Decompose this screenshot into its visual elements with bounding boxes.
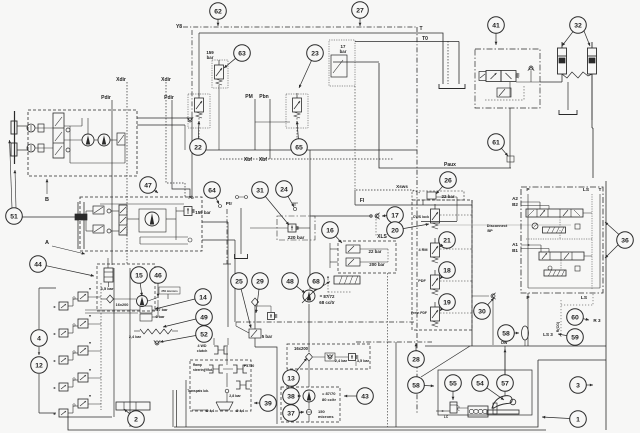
valve 17bar-6bar bbox=[140, 306, 152, 313]
svg-text:Pbn: Pbn bbox=[259, 94, 268, 100]
wire Xbf rail bbox=[199, 149, 417, 151]
diamond junction bbox=[252, 298, 259, 306]
wheel motor 1 bbox=[27, 124, 35, 132]
wire hitch feed bbox=[538, 359, 606, 361]
svg-text:37: 37 bbox=[287, 410, 295, 417]
svg-text:Pb: Pb bbox=[188, 195, 194, 200]
svg-text:LS 3: LS 3 bbox=[543, 332, 553, 337]
svg-text:4: 4 bbox=[37, 335, 41, 342]
balloon 13 bbox=[283, 370, 300, 387]
svg-text:32: 32 bbox=[574, 22, 582, 29]
balloon 38 bbox=[283, 388, 300, 405]
wheel brake lower bbox=[11, 143, 17, 156]
cylinder left bbox=[558, 48, 567, 74]
pump 38 bbox=[303, 390, 315, 402]
spool stack bbox=[53, 113, 64, 158]
gearbox lub box bbox=[287, 344, 370, 369]
balloon 22 bbox=[190, 139, 207, 156]
svg-text:Xbf: Xbf bbox=[259, 157, 267, 163]
transmission assembly box bbox=[28, 110, 137, 176]
wire drain 396 bbox=[395, 342, 397, 427]
clutch r1 bbox=[209, 365, 213, 373]
valve 5bar bbox=[249, 329, 261, 338]
wire Pdir line B bbox=[172, 100, 190, 197]
wire bottom border bbox=[68, 417, 546, 430]
tank mid bbox=[235, 254, 248, 259]
balloon 3 bbox=[570, 377, 587, 394]
balloon 39 bbox=[260, 395, 277, 412]
svg-text:159 bar: 159 bar bbox=[195, 210, 211, 215]
svg-text:Xdir: Xdir bbox=[161, 77, 171, 83]
svg-text:R 3: R 3 bbox=[593, 318, 601, 323]
solenoid 4RM bbox=[431, 243, 440, 257]
svg-text:B1: B1 bbox=[512, 248, 518, 253]
gerotor 1 bbox=[93, 206, 104, 214]
axle shaft bbox=[14, 111, 16, 164]
balloon 60 bbox=[567, 309, 584, 326]
svg-text:63: 63 bbox=[238, 50, 246, 57]
svg-text:22: 22 bbox=[194, 144, 202, 151]
wire CWS line bbox=[421, 221, 457, 223]
balloon 16 bbox=[322, 222, 339, 239]
balloon 24 bbox=[276, 181, 293, 198]
svg-text:28: 28 bbox=[412, 356, 420, 363]
wire LG in bbox=[436, 410, 450, 412]
wire R3 rail bbox=[605, 181, 607, 430]
svg-text:3,5 bar: 3,5 bar bbox=[357, 359, 370, 363]
shuttle 1 bbox=[66, 128, 70, 132]
clutch r2 bbox=[233, 365, 237, 373]
wire lever feed bbox=[504, 346, 506, 396]
wire mid tank drop bbox=[240, 208, 242, 254]
balloon 46 bbox=[150, 267, 167, 284]
svg-text:31: 31 bbox=[256, 187, 264, 194]
svg-text:Transpats lub.: Transpats lub. bbox=[187, 389, 209, 393]
wire xsws link bbox=[413, 190, 420, 193]
svg-text:T: T bbox=[599, 187, 602, 193]
svg-text:steering clut.: steering clut. bbox=[193, 368, 213, 372]
svg-text:18: 18 bbox=[443, 267, 451, 274]
svg-text:Xbf: Xbf bbox=[244, 157, 252, 163]
svg-text:61: 61 bbox=[492, 139, 500, 146]
differential bbox=[216, 402, 233, 410]
balloon 28 bbox=[408, 351, 425, 368]
directional valve section bbox=[78, 399, 88, 408]
svg-text:250 microns: 250 microns bbox=[161, 289, 178, 293]
tank 41 bbox=[559, 110, 577, 115]
aux valve box 41 bbox=[475, 49, 540, 108]
pilot valve 41 bbox=[497, 88, 511, 97]
valve 22bar-26 bbox=[412, 191, 464, 200]
wire pump link bbox=[457, 407, 468, 409]
wire tank link bbox=[198, 33, 200, 96]
svg-text:23: 23 bbox=[311, 50, 319, 57]
svg-text:55: 55 bbox=[449, 380, 457, 387]
check 41 bbox=[529, 66, 533, 70]
valve 17bar bbox=[331, 55, 347, 77]
wheel motor 2 bbox=[27, 144, 35, 152]
balloon 23 bbox=[307, 45, 324, 62]
test point 24 bbox=[292, 202, 298, 204]
solenoid PDF bbox=[431, 275, 440, 289]
wire box1 internals bbox=[35, 127, 53, 129]
relief 159bar bbox=[184, 207, 192, 216]
reducer 22bar bbox=[346, 245, 360, 253]
filter diamond bbox=[107, 295, 114, 303]
compensator 2 bbox=[532, 223, 538, 229]
balloon 57 bbox=[497, 375, 514, 392]
solenoid CWS bbox=[431, 209, 440, 223]
wire left return stub bbox=[68, 416, 112, 418]
svg-text:BP: BP bbox=[487, 229, 493, 233]
balloon 51 bbox=[6, 208, 23, 225]
valve 22 drain bbox=[188, 118, 192, 122]
balloon 1 bbox=[570, 411, 587, 428]
wire supply right bbox=[202, 221, 228, 223]
svg-text:65: 65 bbox=[295, 144, 303, 151]
svg-text:43: 43 bbox=[361, 393, 369, 400]
wheel brake upper bbox=[11, 121, 17, 134]
wire supply right2 bbox=[202, 239, 235, 241]
relief 220bar bbox=[288, 224, 296, 232]
wire clutch pipes bbox=[226, 347, 228, 365]
balloon 64 bbox=[204, 182, 221, 199]
wire sol links bbox=[440, 214, 472, 216]
pilot box 17bar bbox=[329, 40, 355, 86]
svg-text:FI: FI bbox=[360, 198, 365, 204]
balloon 32 bbox=[570, 17, 587, 34]
hose wave bbox=[562, 72, 592, 78]
cylinder right bbox=[588, 48, 597, 74]
assembly frame bbox=[438, 370, 532, 415]
svg-text:PM: PM bbox=[245, 94, 253, 100]
wire cylinder drain bbox=[591, 74, 593, 128]
compensator 1 bbox=[544, 270, 566, 276]
svg-text:B2: B2 bbox=[512, 202, 518, 207]
check 17 bbox=[375, 214, 379, 218]
balloon 36 bbox=[617, 232, 634, 249]
wire pump feed line bbox=[309, 150, 311, 289]
svg-text:2,4 bar: 2,4 bar bbox=[129, 335, 142, 339]
svg-text:58: 58 bbox=[502, 330, 510, 337]
balloon 29 bbox=[252, 273, 269, 290]
svg-text:R(CG): R(CG) bbox=[556, 321, 560, 332]
solenoid FreinPDF bbox=[431, 307, 440, 321]
clutch box bbox=[190, 360, 251, 411]
svg-text:22 bar: 22 bar bbox=[442, 194, 455, 199]
bank end plate bbox=[116, 402, 150, 410]
balloon 4 bbox=[31, 330, 48, 347]
wire pilot drop 387 bbox=[387, 273, 389, 427]
svg-text:60: 60 bbox=[571, 314, 579, 321]
balloon 49 bbox=[196, 309, 213, 326]
balloon 25 bbox=[231, 273, 248, 290]
wire 41 out bbox=[540, 81, 562, 83]
wire T0 inner line bbox=[447, 41, 449, 84]
svg-text:Frein PDF: Frein PDF bbox=[411, 311, 427, 315]
svg-text:48: 48 bbox=[286, 278, 294, 285]
svg-text:17: 17 bbox=[391, 212, 399, 219]
svg-text:12: 12 bbox=[35, 362, 43, 369]
charge valve bbox=[117, 133, 125, 145]
svg-text:16x200: 16x200 bbox=[116, 303, 129, 307]
svg-text:Xsws: Xsws bbox=[396, 184, 408, 189]
balloon 63 bbox=[234, 45, 251, 62]
svg-text:4 RM: 4 RM bbox=[418, 248, 427, 252]
accumulator 58 bbox=[522, 326, 529, 340]
svg-text:68 cc/tr: 68 cc/tr bbox=[319, 300, 335, 305]
svg-text:Pdir: Pdir bbox=[164, 95, 174, 101]
svg-text:41: 41 bbox=[492, 22, 500, 29]
svg-text:24: 24 bbox=[280, 186, 288, 193]
svg-text:2: 2 bbox=[134, 416, 138, 423]
spool stack 2 bbox=[119, 205, 127, 235]
svg-text:Ptr: Ptr bbox=[226, 201, 233, 206]
svg-text:5 bar: 5 bar bbox=[262, 334, 273, 339]
balloon 54 bbox=[472, 375, 489, 392]
svg-text:47: 47 bbox=[144, 182, 152, 189]
spool section 2 bbox=[526, 209, 583, 217]
converter coil bbox=[140, 329, 172, 334]
pilot box 22 bbox=[188, 94, 210, 128]
wire bank rails bbox=[100, 283, 102, 410]
balloon 44 bbox=[30, 256, 47, 273]
svg-text:3,5 bar: 3,5 bar bbox=[101, 286, 114, 291]
balloon 58 bbox=[498, 325, 515, 342]
wire block internals bbox=[527, 194, 529, 288]
svg-text:16: 16 bbox=[326, 227, 334, 234]
svg-text:57: 57 bbox=[501, 380, 509, 387]
svg-text:LS: LS bbox=[581, 295, 588, 301]
svg-text:30: 30 bbox=[478, 308, 486, 315]
suction diagonal bbox=[313, 282, 330, 293]
balloon 20 bbox=[387, 222, 404, 239]
microns box bbox=[159, 287, 180, 294]
gerotor 2 bbox=[93, 225, 104, 233]
balloon 55 bbox=[445, 375, 462, 392]
svg-text:26: 26 bbox=[444, 177, 452, 184]
wire 220 line bbox=[250, 227, 288, 229]
svg-text:13: 13 bbox=[287, 375, 295, 382]
balloon 18 bbox=[439, 262, 456, 279]
valve 63 cartridge bbox=[215, 65, 224, 79]
balloon 27 bbox=[352, 2, 369, 19]
balloon 26 bbox=[440, 172, 457, 189]
diamond 13 bbox=[306, 353, 313, 361]
svg-text:59: 59 bbox=[571, 334, 579, 341]
clutch 4wd bbox=[214, 346, 218, 354]
strainer 37 bbox=[306, 409, 311, 414]
wire A2B2 bbox=[521, 201, 540, 203]
directional valve section bbox=[78, 373, 88, 382]
test point 22 bbox=[236, 196, 239, 199]
svg-text:Xdir: Xdir bbox=[116, 77, 126, 83]
shuttle 2 bbox=[66, 148, 70, 152]
svg-text:1: 1 bbox=[576, 416, 580, 423]
svg-text:27: 27 bbox=[356, 7, 364, 14]
svg-text:Ø 4,4: Ø 4,4 bbox=[206, 409, 214, 413]
pilot box 65 bbox=[286, 94, 308, 128]
svg-text:21: 21 bbox=[443, 237, 451, 244]
balloon 12 bbox=[31, 357, 48, 374]
svg-text:LC: LC bbox=[444, 415, 449, 419]
wire 41 internals bbox=[485, 99, 524, 101]
wire T return drop bbox=[416, 27, 418, 414]
wire PM line bbox=[254, 99, 256, 150]
svg-text:A1: A1 bbox=[512, 242, 518, 247]
balloon 58 bbox=[408, 377, 425, 394]
svg-text:51: 51 bbox=[10, 213, 18, 220]
pump drive shaft bbox=[77, 202, 79, 249]
svg-text:T0: T0 bbox=[422, 36, 428, 42]
svg-text:Ramp: Ramp bbox=[193, 363, 202, 367]
svg-text:200 bar: 200 bar bbox=[369, 262, 385, 267]
pilot LS pump bbox=[327, 276, 329, 293]
wire box2 internals bbox=[86, 210, 93, 212]
solenoid block box bbox=[412, 200, 472, 330]
check 30 bbox=[491, 294, 495, 298]
svg-text:68: 68 bbox=[312, 278, 320, 285]
svg-text:15: 15 bbox=[135, 272, 143, 279]
pilot RCG bbox=[560, 300, 562, 337]
svg-text:36: 36 bbox=[621, 237, 629, 244]
svg-text:XLS: XLS bbox=[377, 234, 387, 240]
balloon 61 bbox=[488, 134, 505, 151]
svg-text:4 WD: 4 WD bbox=[198, 344, 207, 348]
wire A1B1 bbox=[521, 244, 541, 246]
valve 22 cartridge bbox=[195, 98, 204, 112]
balloon 14 bbox=[195, 289, 212, 306]
svg-text:PDF: PDF bbox=[418, 279, 426, 283]
svg-text:Disconnect: Disconnect bbox=[487, 224, 508, 228]
balloon 37 bbox=[283, 405, 300, 422]
LS gallery bbox=[526, 238, 592, 240]
svg-text:25: 25 bbox=[235, 278, 243, 285]
wire 37 pipes bbox=[308, 402, 310, 409]
svg-text:A2: A2 bbox=[512, 196, 518, 201]
svg-text:bar: bar bbox=[340, 49, 347, 54]
wire box1 out bbox=[137, 117, 192, 119]
wire lock rail bbox=[356, 341, 432, 343]
filter box 44 bbox=[97, 264, 155, 311]
svg-text:29: 29 bbox=[256, 278, 264, 285]
svg-text:3: 3 bbox=[576, 382, 580, 389]
svg-text:58: 58 bbox=[412, 382, 420, 389]
tank T0 bbox=[439, 84, 465, 89]
balloon 2 bbox=[128, 411, 145, 428]
svg-text:LS: LS bbox=[583, 187, 590, 193]
balloon 17 bbox=[387, 207, 404, 224]
reducer 200bar bbox=[346, 258, 360, 266]
balloon 43 bbox=[357, 388, 374, 405]
wire Pbn line bbox=[269, 99, 271, 159]
wire Ptr drop bbox=[226, 209, 228, 264]
wire 5bar pipes bbox=[254, 306, 256, 329]
balloon 65 bbox=[291, 139, 308, 156]
svg-text:19: 19 bbox=[443, 299, 451, 306]
svg-text:20: 20 bbox=[391, 227, 399, 234]
pump assembly box bbox=[80, 197, 202, 251]
main pump bbox=[303, 290, 315, 302]
svg-text:A: A bbox=[45, 240, 49, 246]
suction filter bbox=[104, 268, 113, 282]
svg-text:= 87/70: = 87/70 bbox=[322, 391, 336, 396]
wire mid rail bbox=[191, 30, 193, 115]
svg-text:T: T bbox=[419, 26, 422, 32]
wire 13 pipes bbox=[313, 356, 325, 358]
wire xls links bbox=[330, 248, 338, 250]
wire Ow line bbox=[425, 345, 606, 347]
directional valve section bbox=[78, 292, 88, 301]
wire 26 legs bbox=[422, 200, 424, 205]
wire 44 internals bbox=[107, 258, 109, 268]
balloon 15 bbox=[131, 267, 148, 284]
spool section 1 bbox=[539, 252, 584, 260]
svg-text:clutch: clutch bbox=[197, 349, 208, 353]
svg-text:80 cc/tr: 80 cc/tr bbox=[322, 397, 336, 402]
balloon 48 bbox=[282, 273, 299, 290]
svg-text:52: 52 bbox=[200, 331, 208, 338]
wire 17bar drop bbox=[354, 86, 356, 190]
clutch r3 bbox=[236, 381, 240, 389]
xls feed line bbox=[310, 215, 372, 217]
pump box 37 bbox=[281, 387, 340, 422]
balloon 62 bbox=[210, 3, 227, 20]
gear pump bbox=[468, 406, 488, 417]
wire cyl down bbox=[591, 74, 593, 120]
wire Xsws pilot bbox=[356, 189, 412, 191]
spring 35bar bbox=[349, 354, 356, 361]
wire pm link bbox=[218, 85, 220, 150]
wire bank bracket bbox=[39, 287, 56, 289]
svg-text:Paux: Paux bbox=[444, 162, 456, 168]
wire Xdir pilot B bbox=[166, 82, 185, 197]
balloon 32 leader2 bbox=[584, 31, 590, 46]
svg-text:39: 39 bbox=[264, 400, 272, 407]
svg-text:62: 62 bbox=[214, 8, 222, 15]
filter cart bbox=[334, 276, 360, 284]
valve 65 cartridge bbox=[293, 98, 302, 112]
wire 51 shaft link bbox=[22, 216, 76, 218]
wire return drops bbox=[172, 390, 174, 427]
balloon 30 bbox=[474, 303, 491, 320]
pilot box 63 bbox=[212, 60, 228, 88]
pump M2 bbox=[98, 134, 110, 146]
wire T0 return line bbox=[199, 33, 443, 84]
orifice lub bbox=[225, 389, 229, 393]
svg-text:Y8: Y8 bbox=[176, 24, 182, 30]
wire bottom-right tank bbox=[174, 360, 538, 427]
wire 4wd link bbox=[213, 338, 215, 345]
svg-text:Pdir: Pdir bbox=[101, 95, 111, 101]
svg-text:CWS lock: CWS lock bbox=[413, 215, 429, 219]
wire box2 top line bbox=[100, 203, 184, 205]
svg-text:B: B bbox=[45, 197, 49, 203]
loader valve box bbox=[521, 187, 603, 293]
balloon 59 bbox=[567, 329, 584, 346]
directional valve section bbox=[78, 346, 88, 355]
wire clutch rail bbox=[236, 321, 414, 323]
wire Xbf pilot bbox=[220, 158, 393, 160]
svg-text:14: 14 bbox=[199, 294, 207, 301]
check 52 bbox=[155, 341, 159, 345]
wire mid links bbox=[85, 309, 140, 311]
wire FI line bbox=[355, 204, 472, 206]
hand lever bbox=[492, 396, 512, 408]
wire Ow diagonal bbox=[421, 346, 470, 377]
charge pump 15 bbox=[137, 296, 148, 307]
svg-text:49: 49 bbox=[200, 314, 208, 321]
